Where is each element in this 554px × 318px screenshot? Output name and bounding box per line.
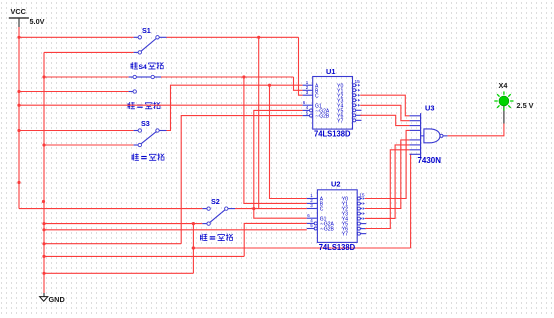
svg-text:∼G2B: ∼G2B [320,227,335,233]
svg-text:15: 15 [355,79,361,85]
wire GND to S2 bottom throw [42,222,202,225]
wire VCC to S1 top throw [17,36,133,39]
probe X4 (green indicator) [494,91,513,123]
wire GND row to U2 pin ~G2B [42,228,306,231]
value label 74LS138D of U1 [314,130,351,139]
wire U1 Y4 to U3 input 2 [360,105,409,120]
wire GND to S3 bottom throw [42,143,133,146]
op-amp-style IC body U1 74LS138D decoder box [313,77,353,130]
U2 pin number 15 on Y0 [359,192,365,198]
IC body U2 74LS138D decoder box [317,190,357,243]
svg-text:2.5 V: 2.5 V [517,101,534,110]
gate U3 7430N 8-input NAND [410,113,448,157]
value label 2.5 V [517,101,534,110]
label S2 [211,197,220,206]
label U3 [425,104,434,113]
wire U1 Y2 to U3 input 1 [360,95,409,116]
wire S4 common to corner x=293.5 into U1 pin B [161,75,303,90]
wire VCC rail vertical x=19 [18,27,20,209]
wire VCC to S3 top throw [17,129,133,132]
svg-text:74LS138D: 74LS138D [314,130,351,139]
svg-text:15: 15 [359,192,365,198]
wire GND rail vertical x=44 [43,52,45,293]
wire GND row y=243.7 to riser x=181.2 up to U1 pin ~G2B [42,116,302,246]
wire S4 branch down to U2 pin B [244,77,307,203]
svg-text:∼G2B: ∼G2B [315,114,330,120]
svg-text:VCC: VCC [11,7,27,16]
svg-text:Y7: Y7 [337,118,343,124]
switch S4 (closed position) [129,75,161,93]
wire U2 Y6 up to U3 input 7 [365,150,410,229]
label U1 [326,67,335,76]
svg-text:C: C [320,207,324,213]
U1 output pins Y0-Y7 with inversion bubbles [337,83,362,124]
wire S3 common up and right to U1 pin A [167,84,303,131]
wire U1 Y6 to U3 input 3 [360,115,409,125]
junction dot on GND rail near S2 [42,200,45,203]
wire U2 Y0 up to U3 input 4 [365,130,410,198]
wire GND row y=273.3 with riser x=193.4 up to S2 bottom row [42,222,195,275]
wire GND to S4 top throw [42,75,128,78]
key hint for S2 [200,234,233,241]
svg-text:U2: U2 [331,180,340,189]
U2 output pins Y0-Y7 with inversion bubbles [342,197,367,238]
U2 input pins A B C G1 ~G2A ~G2B with pin numbers [307,193,318,230]
svg-text:S3: S3 [141,119,150,128]
svg-text:7430N: 7430N [418,156,442,165]
svg-text:U3: U3 [425,104,434,113]
svg-text:Y7: Y7 [342,232,348,238]
switch S1 [134,36,167,55]
svg-text:X4: X4 [499,81,509,90]
value label 74LS138D of U2 [319,243,356,252]
switch S2 [202,207,235,225]
wire GND row y=256.4 to riser x=244.2 up to U2 pin ~G2A [42,223,306,258]
wire S2 common to U2 pin C with junction [235,207,307,210]
label S3 [141,119,150,128]
U1 pin number 15 on Y0 [355,79,361,85]
wire S2 junction down to U2 pin G1 [254,209,307,219]
svg-text:S2: S2 [211,197,220,206]
ground symbol GND [40,293,65,304]
svg-text:C: C [315,93,319,99]
U1 pin names A B C G1 G2A G2B [315,83,330,119]
switch S3 [134,129,167,147]
svg-text:U1: U1 [326,67,335,76]
wire S1 common to node, junction at x=258.7, corner to U1 pin C [167,36,303,95]
wire VCC to S4 bottom throw [17,90,128,93]
U1 input pins A B C G1 ~G2A ~G2B with pin numbers 1 2 3 6 4 5 [303,80,313,117]
label X4 [499,81,509,90]
key hint for S3 [132,153,165,160]
wire VCC rail corner to S2 top throw [19,208,202,210]
U2 pin names A B C G1 G2A G2B [320,197,335,233]
svg-text:74LS138D: 74LS138D [319,243,356,252]
wire S3 branch down to U2 pin A [270,85,307,198]
wire S1 branch down to U2 row C [258,37,260,208]
svg-text:S1: S1 [142,26,151,35]
label U2 [331,180,340,189]
wire VCC to U1 pin G1 (long horizontal) [17,104,302,107]
wire U2 Y4 up to U3 input 6 [365,145,410,219]
svg-text:GND: GND [49,295,65,304]
power symbol VCC [9,7,45,27]
value label 7430N of U3 [418,156,442,165]
label S4 with key hint [131,62,164,71]
wire S2 junction up to U1 pin ~G2A [254,110,303,208]
wire U2 Y2 up to U3 input 5 [365,140,410,209]
wire GND rail corner to S1 bottom throw [44,51,134,53]
label S1 [142,26,151,35]
svg-text:5.0V: 5.0V [30,17,45,26]
wire U3 output to probe X4 [448,124,504,136]
wire GND long row y=248 to riser x=410.6 feeding U3 input 8 [192,154,411,249]
key hint for S4 lower [128,102,161,109]
junction dot on VCC rail [17,181,20,184]
svg-text:S4: S4 [139,64,148,71]
